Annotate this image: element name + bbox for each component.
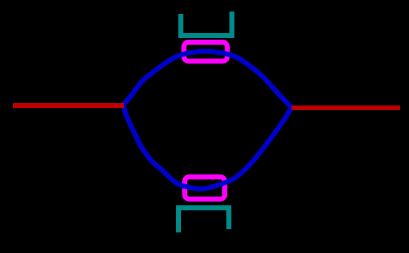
Josephson junction J1 (top magenta box) xyxy=(184,42,227,61)
right lead (red wire) xyxy=(292,105,401,110)
bottom electrode (teal bracket) xyxy=(179,208,229,233)
left lead (red wire) xyxy=(13,103,124,108)
superconducting loop (blue) xyxy=(123,51,292,189)
top electrode (teal bracket) xyxy=(181,12,232,36)
Josephson junction J2 (bottom magenta box) xyxy=(185,177,225,199)
